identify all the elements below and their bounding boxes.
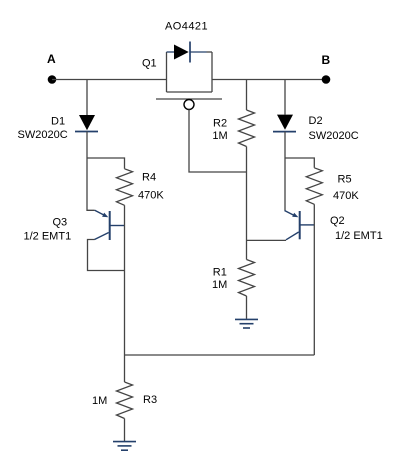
- wire bottom rail: [125, 354, 315, 356]
- svg-text:1M: 1M: [92, 395, 107, 407]
- wire rail down to R3: [124, 355, 126, 382]
- svg-text:R5: R5: [338, 173, 352, 185]
- svg-text:R3: R3: [143, 394, 157, 406]
- svg-text:470K: 470K: [333, 190, 359, 202]
- diode D1: [75, 115, 98, 132]
- resistor R5: [306, 168, 322, 205]
- wire top rail to D2 anode: [284, 80, 286, 115]
- resistor R3: [117, 382, 133, 419]
- resistor R4: [117, 169, 133, 206]
- body diode of Q1: [167, 42, 213, 63]
- wire D1 cathode down to Q3 emitter: [87, 132, 95, 211]
- svg-text:SW2020C: SW2020C: [18, 129, 68, 141]
- transistor Q3: [95, 210, 125, 240]
- wire R1 to ground: [246, 296, 248, 319]
- svg-text:Q1: Q1: [142, 58, 157, 70]
- wire gate of Q1 to R2 bottom node: [189, 110, 247, 173]
- svg-text:R2: R2: [213, 117, 227, 129]
- svg-text:1/2 EMT1: 1/2 EMT1: [24, 230, 72, 242]
- wire R3 to ground: [124, 419, 126, 442]
- wire A to Q1 left: [52, 79, 167, 81]
- wire Q2 emitter to R2/R1 node: [247, 239, 287, 241]
- wire R5 bottom down to bottom rail: [313, 204, 315, 355]
- wire Q3 collector loop: [88, 240, 125, 271]
- wire R2 bottom to R1 top: [246, 147, 248, 260]
- transistor Q1 box: [167, 52, 213, 92]
- svg-text:D1: D1: [51, 116, 65, 128]
- wire branch to R4 top: [87, 158, 125, 169]
- wire Q1 right to B: [212, 79, 326, 81]
- svg-text:SW2020C: SW2020C: [309, 130, 359, 142]
- ground (R1): [235, 319, 258, 328]
- ground (R3): [113, 442, 136, 451]
- wire R4 bottom down to bottom rail: [124, 205, 126, 355]
- node A: [47, 52, 56, 84]
- svg-text:1/2 EMT1: 1/2 EMT1: [335, 230, 383, 242]
- svg-text:R4: R4: [142, 172, 156, 184]
- svg-text:470K: 470K: [138, 190, 164, 202]
- wire branch to R5 top: [285, 158, 314, 168]
- svg-text:R1: R1: [213, 266, 227, 278]
- diode D2: [273, 115, 296, 132]
- resistor R1: [239, 260, 255, 297]
- wire top rail to R2: [246, 80, 248, 111]
- gate bubble of Q1: [184, 100, 194, 110]
- svg-text:D2: D2: [309, 115, 323, 127]
- svg-text:1M: 1M: [212, 279, 227, 291]
- svg-text:Q3: Q3: [53, 216, 68, 228]
- svg-text:1M: 1M: [212, 130, 227, 142]
- transistor Q2: [285, 211, 315, 240]
- svg-text:Q2: Q2: [330, 215, 345, 227]
- wire D2 cathode down to Q2 collector: [284, 132, 286, 211]
- svg-text:AO4421: AO4421: [165, 21, 208, 33]
- resistor R2: [239, 110, 255, 147]
- svg-text:B: B: [322, 53, 331, 67]
- node B: [322, 53, 331, 84]
- wire top rail to D1 anode: [86, 80, 88, 116]
- svg-text:A: A: [47, 52, 56, 66]
- gate plate of Q1: [156, 98, 222, 100]
